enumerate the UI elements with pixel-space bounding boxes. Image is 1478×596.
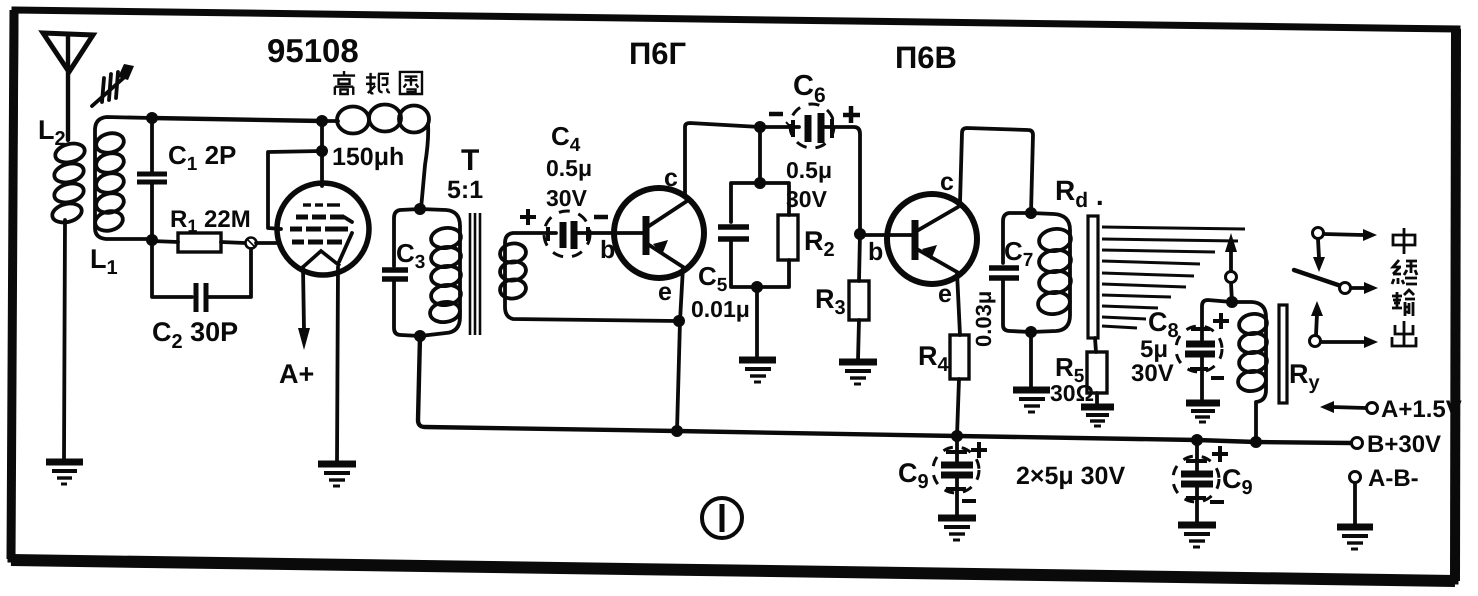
label L1 (90, 244, 118, 279)
label C3 (396, 238, 425, 273)
antenna (43, 33, 93, 140)
ground (C5 R2) (739, 360, 776, 382)
transformer core (470, 213, 480, 335)
relay contact top (1313, 228, 1378, 273)
svg-text:0.5μ: 0.5μ (546, 155, 592, 181)
svg-text:c: c (664, 164, 678, 192)
terminal A+1.5V (1320, 401, 1378, 414)
terminal A-B- (1350, 472, 1361, 526)
wire collector node down to RC combo (758, 127, 762, 183)
node top-left (146, 112, 158, 124)
label R4 (918, 341, 950, 376)
node bus C9 first (951, 430, 963, 442)
ground (C9 second) (1178, 525, 1216, 547)
label R1 22M (170, 206, 251, 236)
capacitor C1 (137, 118, 167, 239)
label Rd (1055, 175, 1104, 212)
wire cathode to ground (337, 267, 338, 462)
transformer T secondary (499, 233, 678, 321)
figure number circled 1 (702, 498, 742, 538)
svg-text:B+30V: B+30V (1367, 431, 1441, 458)
capacitor C9 first (933, 436, 979, 516)
resistor R1 (152, 233, 245, 252)
svg-text:0.5μ: 0.5μ (786, 157, 832, 183)
capacitor C5 and resistor R2 parallel (718, 183, 798, 287)
choke coil 150uh (322, 105, 429, 210)
svg-text:0.01μ: 0.01μ (691, 296, 750, 322)
node relay drive (1226, 296, 1238, 308)
tuning arrow (adjustable core marks) (92, 64, 134, 106)
node Q2 base (854, 228, 866, 240)
node Q1 emitter-secondary (673, 315, 685, 327)
terminal grid circle (246, 238, 257, 249)
svg-text:5:1: 5:1 (447, 176, 483, 204)
svg-text:5μ: 5μ (1140, 336, 1168, 363)
label 95108 (267, 32, 359, 69)
wire Q1 collector loop (685, 123, 760, 197)
node bus Ry (1250, 436, 1262, 448)
label 150uh (332, 143, 404, 171)
ground (A-B-) (1337, 527, 1373, 549)
wire L2 to ground (64, 220, 65, 459)
label R2 (804, 226, 835, 261)
label 2x5u 30V (1016, 462, 1125, 490)
label P6V (895, 40, 957, 75)
svg-text:П6В: П6В (895, 40, 957, 75)
vacuum tube 95108 (256, 120, 369, 275)
relay armature bar Ry (1279, 305, 1287, 403)
label B+30V (1367, 431, 1441, 458)
label relay output chinese (1392, 228, 1417, 346)
label R5 30ohm (1050, 352, 1094, 406)
label 5:1 (447, 176, 483, 204)
label A+1.5V (1381, 396, 1462, 423)
wire C7 to ground (1029, 332, 1033, 388)
wire top bus L1 to choke (152, 118, 322, 121)
capacitor C6 electrolytic (760, 104, 860, 234)
node bus C9 second (1191, 434, 1203, 446)
detector bar Rd (1088, 216, 1098, 338)
ground (C8) (1186, 403, 1220, 422)
svg-text:0.03μ: 0.03μ (971, 291, 996, 347)
svg-text:A+1.5V: A+1.5V (1381, 396, 1462, 423)
label C7 (1004, 236, 1033, 271)
label C6 values (769, 70, 860, 212)
svg-text:A+: A+ (279, 359, 314, 389)
svg-text:30Ω: 30Ω (1050, 380, 1094, 406)
label 0.03u vertical (971, 291, 996, 347)
wire bottom bus (418, 336, 1351, 443)
inductor L2 (50, 141, 86, 226)
label C5 0.01u (691, 261, 750, 322)
label C2 30P (152, 317, 238, 353)
svg-text:e: e (938, 280, 952, 308)
capacitor C2 and loop wire (152, 240, 251, 312)
node RC combo bottom (751, 281, 763, 293)
arrow to armature with terminal (1225, 233, 1237, 302)
labels c b e Q1 (600, 164, 678, 306)
ground (C9 first) (938, 518, 976, 540)
node C7 bottom (1025, 326, 1037, 338)
svg-text:150μh: 150μh (332, 143, 404, 171)
transistor Q1 P6G (614, 188, 704, 278)
fan lines of Rd (1102, 227, 1245, 328)
svg-text:C1 2P: C1 2P (168, 140, 236, 175)
label T (461, 144, 479, 177)
node RC combo top (754, 177, 766, 189)
label A-B- (1368, 465, 1419, 492)
node C3 top (414, 203, 426, 215)
node plate/grid tap (316, 145, 328, 157)
svg-text:A-B-: A-B- (1368, 465, 1419, 492)
relay contact bottom (1310, 301, 1379, 348)
node C7 top (1025, 207, 1037, 219)
node Q1 collector (754, 121, 766, 133)
svg-text:30V: 30V (546, 185, 588, 211)
label C4 values (520, 121, 608, 225)
capacitor C7 (989, 213, 1031, 332)
wire Q2 emitter down (957, 272, 960, 335)
resistor R3 (849, 234, 869, 360)
svg-text:2×5μ 30V: 2×5μ 30V (1016, 462, 1125, 490)
filament A+ arrow (298, 267, 310, 350)
svg-text:T: T (461, 144, 479, 177)
wire Q2 collector loop (960, 128, 1033, 213)
label C8 values (1131, 307, 1229, 387)
terminal B+30V (1352, 438, 1363, 449)
svg-text:R1 22M: R1 22M (170, 206, 251, 236)
label R3 (815, 284, 846, 319)
node L1 bottom (146, 234, 158, 246)
svg-text:П6Г: П6Г (629, 36, 686, 71)
label Ry (1289, 359, 1321, 394)
wire combo to ground (755, 287, 759, 358)
resistor R4 (950, 335, 969, 436)
svg-text:30V: 30V (1131, 360, 1174, 387)
relay switch blade (1294, 270, 1378, 294)
svg-text:e: e (658, 278, 672, 306)
svg-text:c: c (940, 168, 954, 196)
relay coil Ry (1232, 302, 1268, 442)
svg-text:95108: 95108 (267, 32, 359, 69)
ground (R5) (1081, 407, 1114, 426)
label C1 2P (168, 140, 236, 175)
label P6G (629, 36, 686, 71)
label A+ (279, 359, 314, 389)
capacitor C9 second (1173, 440, 1219, 523)
wire Q1 emitter down (677, 267, 683, 431)
ground (antenna circuit) (46, 462, 83, 484)
label C9 first (898, 442, 987, 501)
capacitor C4 electrolytic (544, 211, 644, 257)
label choke chinese (333, 71, 422, 95)
capacitor C8 electrolytic (1176, 300, 1232, 401)
label C9 second (1210, 446, 1253, 502)
labels c b e Q2 (868, 168, 954, 308)
inductor C7 tank coil (1031, 213, 1072, 332)
inductor L1 (93, 117, 152, 239)
node top at choke (316, 115, 328, 127)
svg-text:b: b (600, 236, 615, 264)
label L2 (38, 115, 66, 150)
capacitor C3 (382, 209, 420, 336)
transformer T primary (420, 209, 462, 336)
resistor R5 (1087, 338, 1107, 405)
node C3 bottom (414, 330, 426, 342)
ground (C7) (1013, 390, 1050, 412)
transistor Q2 P6V (860, 194, 977, 284)
svg-text:30V: 30V (786, 186, 828, 212)
ground (tube cathode) (318, 464, 356, 486)
node Q1 emitter bus (671, 425, 683, 437)
svg-text:b: b (868, 238, 883, 266)
ground (R3) (839, 362, 877, 384)
